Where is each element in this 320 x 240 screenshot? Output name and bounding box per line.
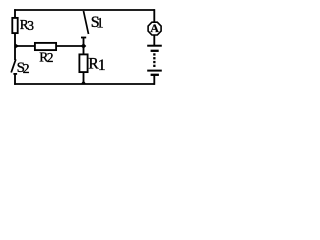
svg-text:A: A <box>150 21 159 35</box>
svg-text:2: 2 <box>23 62 30 77</box>
svg-text:1: 1 <box>96 15 104 31</box>
svg-text:3: 3 <box>27 18 34 33</box>
svg-text:2: 2 <box>47 50 54 65</box>
svg-text:1: 1 <box>98 57 106 74</box>
